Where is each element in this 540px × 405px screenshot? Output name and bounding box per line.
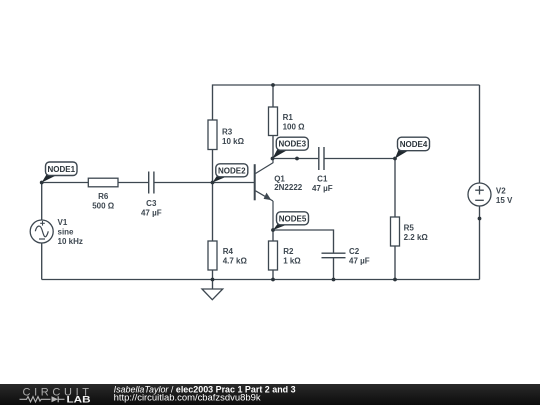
junction dot collector wire [295,157,299,161]
svg-text:2N2222: 2N2222 [274,183,303,192]
voltage source V1 [30,218,83,246]
junction dot top rail [271,83,275,87]
wire R2 bottom [272,270,274,280]
svg-text:NODE3: NODE3 [279,140,307,149]
svg-text:C3: C3 [146,199,157,208]
junction dot bottom R4 [211,278,215,282]
resistor R4 [208,241,247,270]
resistor R6 [88,178,118,210]
wire C3 to base [155,182,255,184]
junction dot node4 [393,157,397,161]
wire R1 bottom to collector node [272,136,274,159]
svg-text:500 Ω: 500 Ω [92,202,115,211]
capacitor C3 [141,172,162,218]
svg-text:R4: R4 [223,247,234,256]
svg-text:R2: R2 [283,247,294,256]
svg-text:R3: R3 [222,128,233,137]
svg-text:15 V: 15 V [496,196,513,205]
svg-text:V2: V2 [496,186,506,195]
svg-text:2.2 kΩ: 2.2 kΩ [404,233,429,242]
wire R4 bottom [212,270,214,280]
wire V1 top [41,183,43,221]
wire collector node to C1 [273,158,319,160]
svg-text:R5: R5 [404,223,415,232]
wire R3 bottom to node2 [212,150,214,183]
node NODE1 [42,162,77,183]
svg-text:C2: C2 [349,247,360,256]
wire R1 drop from top rail [272,85,274,107]
wire C2 bottom [333,258,335,280]
svg-text:C1: C1 [317,174,328,183]
wire main signal V1 to R6 [42,182,89,184]
svg-text:http://circuitlab.com/cbafzsdv: http://circuitlab.com/cbafzsdvu8b9k [114,392,262,402]
junction dot node5 [271,228,275,232]
ground [202,289,223,300]
capacitor C2 [322,247,370,266]
wire top rail [213,85,480,120]
wire V1 bottom [41,243,43,280]
junction dot bottom R2 [271,278,275,282]
wire V2 top from rail [479,85,481,183]
svg-text:V1: V1 [58,218,68,227]
wire node4 to R5 [394,159,396,218]
resistor R3 [208,120,245,150]
svg-text:LAB: LAB [67,394,92,404]
wire C1 to node4 [324,158,395,160]
wire emitter node5 right [273,230,334,253]
svg-text:10 kHz: 10 kHz [58,237,83,246]
transistor Q1 [255,159,303,231]
svg-text:10 kΩ: 10 kΩ [222,137,245,146]
resistor R5 [391,217,429,246]
resistor R1 [269,107,306,136]
node NODE4 [395,137,430,158]
wire ground stub [212,280,214,290]
svg-text:47 µF: 47 µF [141,209,162,218]
node NODE2 [213,164,248,183]
svg-text:sine: sine [58,228,75,237]
wire R6 to C3 [118,182,148,184]
wire node5 to R2 [272,230,274,241]
wire bottom rail [42,279,480,281]
junction dot node2 [211,181,215,185]
wire node2 to R4 [212,183,214,242]
svg-text:1 kΩ: 1 kΩ [283,257,301,266]
svg-text:100 Ω: 100 Ω [283,122,306,131]
svg-text:R1: R1 [283,113,294,122]
resistor R2 [269,241,302,270]
svg-text:NODE1: NODE1 [47,165,75,174]
wire R5 bottom [394,246,396,280]
node NODE3 [273,137,309,158]
capacitor C1 [312,147,333,193]
svg-text:NODE5: NODE5 [279,214,307,223]
junction dot node1 [40,181,44,185]
svg-text:47 µF: 47 µF [349,257,370,266]
node NODE5 [273,212,309,230]
junction dot bottom R5 [393,278,397,282]
voltage source V2 [468,183,513,206]
svg-text:4.7 kΩ: 4.7 kΩ [223,257,248,266]
logo circuitlab [20,387,92,405]
junction dot below V2 [478,217,482,221]
wire V2 bottom [479,206,481,280]
svg-text:NODE4: NODE4 [400,140,428,149]
junction dot bottom C2 [332,278,336,282]
junction dot node3 [271,157,275,161]
svg-text:R6: R6 [98,192,109,201]
svg-text:NODE2: NODE2 [218,166,246,175]
svg-text:47 µF: 47 µF [312,184,333,193]
